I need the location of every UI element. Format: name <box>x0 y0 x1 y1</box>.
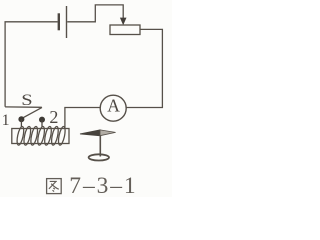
wire ammeter to coil terminal <box>65 108 100 129</box>
solenoid L1 winding loop 1 <box>16 126 25 146</box>
solenoid L1 winding loop 6 <box>50 126 59 146</box>
battery B1 negative plate (short thick) <box>58 13 60 30</box>
svg-text:S: S <box>21 91 32 108</box>
switch S blade <box>22 107 42 118</box>
terminal 1 stem <box>20 119 22 127</box>
rheostat RP body <box>110 25 140 35</box>
needle pivot stem <box>99 136 101 157</box>
svg-text:A: A <box>107 96 120 116</box>
wire left vertical + top to battery <box>5 22 58 107</box>
rheostat wiper arrow <box>120 18 127 26</box>
solenoid L1 winding loop 5 <box>43 126 52 146</box>
caption glyph 图 box <box>47 179 62 194</box>
ammeter A1 circle <box>100 95 126 121</box>
terminal dot 2 <box>39 117 45 123</box>
svg-text:2: 2 <box>49 107 58 127</box>
terminal dot 1 <box>18 116 24 122</box>
caption glyph 图 inner strokes <box>49 181 59 191</box>
wire battery to riser <box>67 5 123 22</box>
solenoid L1 winding loop 4 <box>36 126 45 146</box>
compass needle north half (dark) <box>80 130 100 136</box>
svg-text:1: 1 <box>2 112 10 129</box>
solenoid L1 winding loop 3 <box>30 126 39 146</box>
compass needle south half (light) <box>100 130 116 136</box>
solenoid L1 bobbin core <box>12 129 69 144</box>
needle stand base <box>89 154 109 160</box>
terminal 2 stem <box>41 120 43 127</box>
wire switch feed horizontal <box>5 106 42 108</box>
battery B1 positive plate (long thin) <box>66 6 68 38</box>
wire rheostat to right side down to ammeter <box>126 29 162 107</box>
solenoid L1 winding loop 2 <box>23 126 32 146</box>
solenoid L1 winding loop 7 <box>57 126 66 146</box>
svg-text:7–3–1: 7–3–1 <box>69 173 137 197</box>
